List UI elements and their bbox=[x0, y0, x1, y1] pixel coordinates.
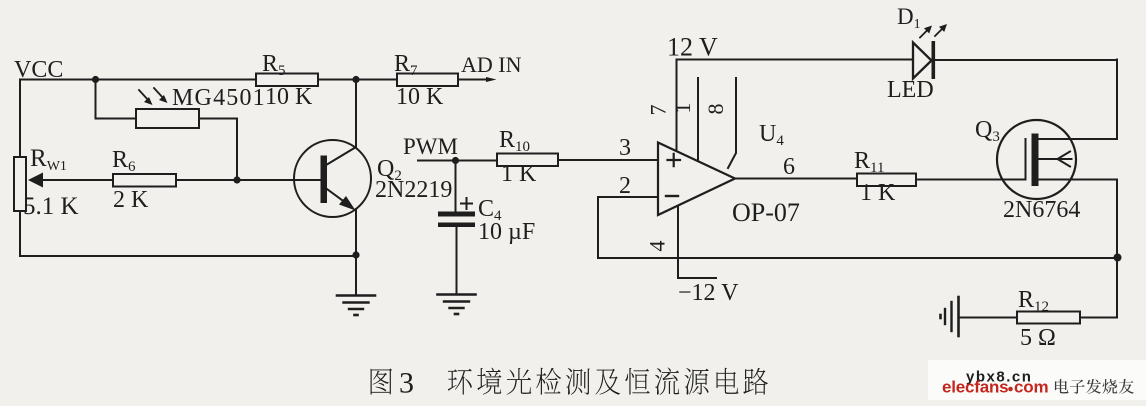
svg-text:12 V: 12 V bbox=[667, 33, 718, 62]
svg-text:6: 6 bbox=[783, 154, 795, 180]
led D1 cathode bar bbox=[932, 41, 936, 79]
label OP-07 bbox=[732, 198, 800, 227]
watermark ybx8.cn bbox=[966, 369, 1032, 386]
label R5 bbox=[262, 51, 286, 79]
pin 7 wire bbox=[676, 60, 678, 151]
value 10 uF bbox=[478, 219, 535, 245]
wire feedback from pin2 to source node bbox=[598, 197, 1118, 258]
svg-text:10 K: 10 K bbox=[265, 84, 313, 110]
wire MG4501 left lead bbox=[96, 80, 137, 119]
value 1 K (R10) bbox=[501, 161, 537, 187]
ground under Q2 bbox=[337, 296, 375, 316]
svg-text:1 K: 1 K bbox=[860, 180, 896, 206]
pin 3 label bbox=[619, 135, 631, 161]
wire PWM to R10 bbox=[418, 160, 497, 162]
pin 8 label bbox=[703, 104, 728, 115]
svg-text:2N2219: 2N2219 bbox=[375, 177, 452, 203]
label 2N2219 bbox=[375, 177, 452, 203]
potentiometer RW1 wiper arrow bbox=[28, 173, 113, 188]
label RW1 bbox=[30, 145, 67, 174]
label MG4501 bbox=[172, 85, 266, 111]
resistor R5 body bbox=[256, 74, 318, 87]
label Q2 bbox=[377, 156, 402, 184]
wire VCC top rail bbox=[20, 79, 256, 81]
svg-text:2: 2 bbox=[619, 173, 631, 199]
wire 12V rail to LED bbox=[677, 59, 914, 61]
wire emitter to ground bbox=[355, 255, 357, 295]
wire right rail down to drain bbox=[1116, 60, 1118, 140]
label C4 bbox=[478, 196, 502, 224]
svg-text:10 µF: 10 µF bbox=[478, 219, 535, 245]
label Q3 bbox=[975, 117, 1000, 145]
wire R10 to op-amp pin3 bbox=[558, 159, 658, 161]
junction PWM-C4 bbox=[452, 157, 459, 164]
svg-text:LED: LED bbox=[887, 77, 934, 103]
transistor Q2 base bar bbox=[321, 156, 328, 204]
svg-text:−12 V: −12 V bbox=[678, 280, 739, 306]
junction feedback-source bbox=[1114, 254, 1122, 262]
wire bottom rail left bbox=[20, 255, 356, 257]
op-amp minus input mark bbox=[666, 195, 678, 197]
svg-text:R12: R12 bbox=[1018, 287, 1049, 315]
value 5 ohm bbox=[1020, 325, 1056, 351]
svg-text:7: 7 bbox=[646, 105, 671, 116]
wire source down to R12 bbox=[1080, 180, 1117, 318]
mosfet Q3 source wire bbox=[1039, 179, 1118, 181]
pin 8 wire bbox=[728, 78, 736, 168]
svg-text:2 K: 2 K bbox=[113, 187, 149, 213]
value 10 K (R5) bbox=[265, 84, 313, 110]
value 10 K (R7) bbox=[396, 84, 444, 110]
mosfet Q3 drain wire bbox=[1039, 138, 1118, 140]
label AD IN bbox=[461, 52, 522, 77]
svg-text:U4: U4 bbox=[759, 121, 784, 149]
junction collector node bbox=[352, 76, 359, 83]
photoresistor MG4501 body bbox=[136, 109, 199, 128]
svg-text:R6: R6 bbox=[112, 147, 136, 175]
wire R12 to ground bbox=[959, 317, 1017, 319]
mosfet Q3 channel bar bbox=[1032, 134, 1039, 187]
svg-text:MG4501: MG4501 bbox=[172, 85, 266, 111]
svg-text:1 K: 1 K bbox=[501, 161, 537, 187]
svg-text:com: com bbox=[1014, 378, 1048, 397]
wire R5 to R7 bbox=[318, 79, 397, 81]
junction VCC-MG4501 bbox=[92, 76, 99, 83]
label R7 bbox=[394, 51, 418, 79]
wire R11 to gate bbox=[916, 179, 1026, 181]
svg-text:elecfans: elecfans bbox=[942, 378, 1008, 397]
wire C4 to ground bbox=[456, 227, 458, 295]
svg-text:PWM: PWM bbox=[403, 134, 458, 159]
led light arrow 2 bbox=[935, 24, 947, 36]
capacitor C4 bottom plate bbox=[438, 223, 475, 228]
node VCC label bbox=[14, 57, 63, 83]
node PWM label bbox=[403, 134, 458, 159]
wire AD IN with arrow bbox=[458, 77, 497, 82]
led D1 triangle bbox=[913, 43, 932, 79]
svg-text:3: 3 bbox=[399, 367, 414, 400]
capacitor C4 top plate bbox=[438, 212, 475, 217]
svg-text:4: 4 bbox=[645, 241, 670, 252]
supply 12 V label bbox=[667, 33, 718, 62]
light arrow 2 into MG4501 bbox=[154, 88, 168, 103]
svg-text:5.1 K: 5.1 K bbox=[23, 193, 79, 220]
svg-text:R10: R10 bbox=[499, 127, 530, 155]
watermark 电子发烧友 bbox=[1055, 379, 1134, 394]
junction emitter-rail bbox=[352, 251, 359, 258]
svg-text:2N6764: 2N6764 bbox=[1003, 197, 1080, 223]
watermark band bbox=[928, 360, 1146, 400]
wire R6 to Q2 base bbox=[176, 179, 321, 181]
svg-text:R7: R7 bbox=[394, 51, 418, 79]
label 2N6764 bbox=[1003, 197, 1080, 223]
svg-text:8: 8 bbox=[703, 104, 728, 115]
led light arrow 1 bbox=[920, 26, 932, 38]
resistor R6 body bbox=[113, 174, 176, 187]
svg-text:R11: R11 bbox=[854, 148, 884, 176]
pin 1 wire bbox=[697, 78, 699, 161]
label D1 bbox=[897, 4, 921, 32]
svg-text:Q3: Q3 bbox=[975, 117, 1000, 145]
label U4 bbox=[759, 121, 784, 149]
transistor Q2 circle bbox=[294, 140, 371, 217]
watermark elecfans.com bbox=[942, 378, 1048, 397]
label R10 bbox=[499, 127, 530, 155]
svg-text:5 Ω: 5 Ω bbox=[1020, 325, 1056, 351]
label R11 bbox=[854, 148, 884, 176]
ground under C4 bbox=[438, 295, 476, 315]
op-amp plus input mark bbox=[668, 154, 681, 166]
light arrow 1 into MG4501 bbox=[139, 90, 153, 105]
wire Q2 collector bbox=[327, 80, 356, 165]
mosfet Q3 body arrow bbox=[1039, 152, 1072, 167]
svg-text:RW1: RW1 bbox=[30, 145, 67, 174]
resistor R10 body bbox=[497, 154, 558, 167]
pin 7 label bbox=[646, 105, 671, 116]
pin 4 wire bbox=[678, 207, 716, 278]
svg-text:R5: R5 bbox=[262, 51, 286, 79]
pin 1 label bbox=[670, 103, 695, 114]
svg-text:1: 1 bbox=[670, 103, 695, 114]
pin 4 label bbox=[645, 241, 670, 252]
wire pin2 input bbox=[598, 196, 658, 198]
label LED bbox=[887, 77, 934, 103]
wire MG4501 right lead bbox=[199, 119, 237, 181]
svg-text:10 K: 10 K bbox=[396, 84, 444, 110]
resistor R11 body bbox=[857, 174, 916, 187]
pin 2 label bbox=[619, 173, 631, 199]
junction R6-MG4501 bbox=[233, 176, 240, 183]
svg-text:3: 3 bbox=[619, 135, 631, 161]
wire LED to right rail bbox=[935, 59, 1117, 61]
value 1 K (R11) bbox=[860, 180, 896, 206]
resistor R7 body bbox=[397, 74, 458, 87]
wire PWM down to C4 bbox=[455, 161, 457, 212]
wire VCC left vertical bbox=[19, 80, 21, 158]
mosfet Q3 circle bbox=[997, 120, 1076, 199]
label R6 bbox=[112, 147, 136, 175]
label R12 bbox=[1018, 287, 1049, 315]
svg-text:D1: D1 bbox=[897, 4, 921, 32]
supply -12 V label bbox=[678, 280, 739, 306]
mosfet Q3 gate line bbox=[1025, 139, 1027, 180]
value 5.1 K bbox=[23, 193, 79, 220]
ground left of R12 bbox=[941, 297, 959, 336]
resistor R12 body bbox=[1017, 312, 1080, 324]
transistor Q2 emitter with arrow bbox=[327, 189, 356, 255]
wire output pin6 bbox=[735, 178, 857, 180]
op-amp U4 triangle bbox=[658, 143, 735, 216]
wire RW1 bottom vertical bbox=[19, 211, 21, 256]
caption text 图3 环境光检测及恒流源电路 bbox=[371, 367, 769, 400]
value 2 K bbox=[113, 187, 149, 213]
svg-text:AD IN: AD IN bbox=[461, 52, 522, 77]
capacitor C4 plus sign bbox=[461, 198, 472, 209]
pin 6 label bbox=[783, 154, 795, 180]
svg-text:OP-07: OP-07 bbox=[732, 198, 800, 227]
potentiometer RW1 body bbox=[14, 157, 26, 211]
